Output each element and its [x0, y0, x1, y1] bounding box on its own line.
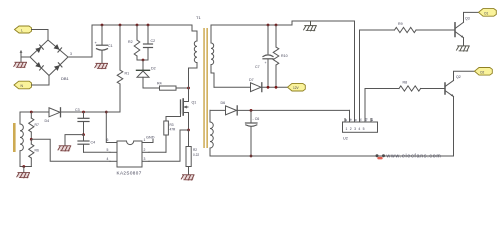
resistor R2 sense box	[186, 130, 199, 175]
svg-text:D6: D6	[221, 101, 226, 105]
svg-text:O2: O2	[480, 70, 484, 74]
svg-text:R3: R3	[170, 123, 174, 127]
svg-text:ld: ld	[354, 119, 358, 122]
resistor R4 box	[143, 82, 189, 91]
capacitor C1 bulk electrolytic	[95, 25, 113, 63]
wire D7 to tag	[262, 86, 287, 88]
ground earth aux	[17, 173, 30, 179]
svg-text:C3: C3	[75, 108, 80, 112]
node dot R1	[119, 24, 122, 27]
wire bridge right to rail	[68, 25, 92, 57]
svg-text:47R: 47R	[170, 128, 177, 132]
node aux return	[22, 165, 25, 168]
svg-text:st: st	[344, 119, 348, 122]
node mid caps	[82, 133, 85, 136]
svg-text:Q2: Q2	[456, 75, 461, 79]
svg-text:D4: D4	[45, 119, 50, 123]
diode D7 output rectifier	[249, 78, 262, 92]
svg-text:R4: R4	[157, 82, 162, 86]
node dot R10	[275, 24, 278, 27]
ground earth Q3	[457, 46, 470, 51]
svg-text:L: L	[21, 28, 23, 32]
bridge rectifier DB1	[30, 40, 72, 81]
wire top DC rail	[92, 24, 192, 26]
svg-text:R7: R7	[35, 123, 39, 127]
resistor R6 divider bottom	[29, 139, 39, 166]
svg-text:ko: ko	[370, 118, 374, 122]
resistor R2 snubber	[128, 25, 140, 60]
polarity arrow	[20, 50, 23, 56]
secondary top rail	[211, 21, 355, 25]
ground earth secondary	[304, 21, 317, 31]
node dot C1	[101, 24, 104, 27]
svg-text:R1: R1	[125, 72, 130, 76]
transistor Q2	[445, 71, 474, 156]
primary top lead	[192, 25, 197, 41]
svg-text:vc: vc	[359, 118, 363, 122]
core	[203, 28, 205, 148]
svg-text:3: 3	[70, 52, 72, 56]
secondary bottom winding	[209, 110, 211, 122]
ground earth C3C4 mid	[58, 146, 71, 152]
capacitor C6	[246, 110, 260, 156]
svg-text:2: 2	[144, 148, 146, 152]
svg-text:4: 4	[107, 157, 109, 161]
IC U1 KA2S0807	[107, 138, 150, 176]
svg-text:Q3: Q3	[465, 17, 470, 21]
transformer T1	[189, 15, 215, 156]
diode D6 low rail	[210, 101, 237, 115]
svg-text:12V: 12V	[293, 86, 300, 90]
wire wL	[32, 30, 49, 41]
svg-text:5: 5	[107, 148, 109, 152]
svg-text:C1: C1	[108, 44, 113, 48]
svg-text:+: +	[265, 61, 267, 65]
svg-text:C2: C2	[151, 39, 156, 43]
MOSFET Q1	[166, 88, 196, 130]
transistor Q3	[455, 12, 478, 45]
node dot R2	[136, 24, 139, 27]
wire D4 cathode rail	[61, 111, 121, 113]
svg-text:Q1: Q1	[192, 101, 197, 105]
wire C4 to pin5	[84, 151, 111, 153]
resistor R10 bleeder	[273, 25, 287, 87]
svg-text:R6: R6	[35, 149, 39, 153]
node dot C2	[147, 24, 150, 27]
resistor R7 divider top	[29, 112, 39, 139]
svg-text:R9: R9	[398, 22, 403, 26]
wire pin6 Vcc	[106, 112, 117, 143]
wire pin1 to GND	[149, 140, 153, 143]
svg-text:DB1: DB1	[61, 76, 70, 81]
resistor R3 gate box	[149, 121, 176, 152]
svg-text:R2: R2	[193, 148, 197, 152]
node snubber	[142, 59, 145, 62]
svg-text:O1: O1	[484, 11, 488, 15]
svg-text:C7: C7	[255, 65, 260, 69]
ground earth sense	[181, 175, 194, 181]
wire D6 to U2	[237, 109, 349, 111]
svg-text:D2: D2	[151, 67, 156, 71]
aux rail wire	[20, 111, 49, 113]
capacitor C7 output	[255, 25, 273, 87]
watermark	[376, 153, 442, 159]
svg-text:GND: GND	[146, 136, 155, 140]
svg-text:- C6: - C6	[253, 117, 260, 121]
svg-text:R8: R8	[403, 81, 408, 85]
node dot C3	[82, 111, 85, 114]
capacitor C2 snubber	[144, 25, 156, 60]
svg-text:U2: U2	[343, 137, 348, 141]
IC U2 block	[343, 21, 378, 141]
connector L (input tag top-left)	[15, 26, 32, 33]
wire secondary to D7	[214, 86, 251, 88]
svg-text:rb: rb	[349, 118, 353, 121]
connector N (input tag lower-left)	[14, 81, 32, 89]
connector output tag 2	[475, 68, 493, 76]
svg-text:D7: D7	[249, 78, 254, 82]
wire snubber join	[137, 59, 148, 61]
capacitor C4	[78, 135, 95, 153]
aux winding T1	[13, 112, 23, 167]
node drain junction	[187, 87, 190, 90]
resistor R9	[360, 22, 456, 33]
resistor R8	[365, 81, 445, 92]
capacitor C3	[75, 108, 89, 135]
svg-text:R2: R2	[128, 40, 133, 44]
svg-text:www.elecfans.com: www.elecfans.com	[387, 153, 442, 159]
svg-text:KA2S0807: KA2S0807	[117, 171, 142, 176]
svg-text:12345: 12345	[346, 127, 367, 131]
wire bridge left to earth	[21, 57, 30, 62]
primary winding	[194, 41, 197, 63]
resistor R1 startup	[117, 25, 129, 112]
wire divider mid to pin4	[31, 139, 110, 161]
svg-text:cg: cg	[364, 118, 368, 122]
secondary top winding	[210, 25, 212, 43]
node source junction	[187, 129, 190, 132]
svg-text:0.22: 0.22	[193, 153, 199, 157]
connector +V output tag	[288, 83, 306, 91]
diode D4 aux rectifier	[45, 108, 61, 123]
wire wN	[32, 76, 50, 86]
ground earth AC input	[14, 62, 27, 68]
svg-text:R10: R10	[281, 54, 288, 58]
wire source to pin3	[149, 130, 189, 161]
ground earth C1	[95, 63, 108, 69]
svg-text:C4: C4	[91, 141, 96, 145]
svg-text:3: 3	[144, 157, 146, 161]
diode D2 clamp	[137, 60, 156, 88]
wire mid to earth	[65, 135, 84, 146]
bottom secondary rail	[210, 155, 454, 157]
wire aux return	[20, 166, 31, 168]
primary bottom lead	[189, 63, 198, 88]
svg-text:T1: T1	[196, 15, 201, 20]
node dot divider	[30, 111, 33, 114]
connector output tag 1	[479, 9, 497, 17]
node dot C7	[267, 24, 270, 27]
node C6 bottom	[250, 155, 253, 158]
node divider mid	[30, 138, 33, 141]
